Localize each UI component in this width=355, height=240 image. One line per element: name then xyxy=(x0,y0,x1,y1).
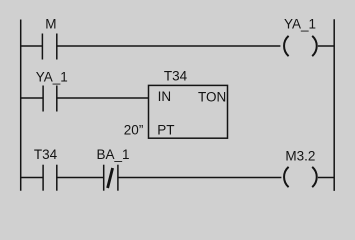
wire rung1: contact M to coil YA_1 xyxy=(57,45,281,47)
svg-text:IN: IN xyxy=(158,89,172,104)
svg-text:PT: PT xyxy=(157,123,174,138)
wire rung1: coil YA_1 to right rail xyxy=(318,45,334,47)
contact YA_1 (normally open) xyxy=(36,70,68,112)
wire rung2: contact YA_1 to timer IN pin xyxy=(57,97,149,99)
wire rung3: left rail to contact T34 xyxy=(21,177,43,179)
svg-text:M3.2: M3.2 xyxy=(285,149,315,164)
contact BA_1 (normally closed) xyxy=(97,147,130,191)
svg-text:BA_1: BA_1 xyxy=(97,147,130,162)
coil YA_1 xyxy=(284,16,317,56)
wire rung1: left rail to contact M xyxy=(21,45,43,47)
contact T34 (normally open) xyxy=(34,147,58,191)
svg-text:M: M xyxy=(45,16,56,31)
wire rung2: left rail to contact YA_1 xyxy=(21,97,43,99)
svg-text:YA_1: YA_1 xyxy=(36,70,68,85)
svg-text:TON: TON xyxy=(198,89,226,104)
svg-text:YA_1: YA_1 xyxy=(284,16,316,31)
svg-text:20”: 20” xyxy=(124,122,144,137)
wire rung3: coil M3.2 to right rail xyxy=(318,177,334,179)
right power rail xyxy=(333,19,335,191)
contact M (normally open) xyxy=(42,16,56,59)
wire rung3: contact T34 to contact BA_1 xyxy=(57,177,104,179)
svg-text:T34: T34 xyxy=(164,69,188,84)
left power rail xyxy=(20,20,22,191)
coil M3.2 xyxy=(284,149,317,188)
svg-text:T34: T34 xyxy=(34,147,58,162)
wire rung3: contact BA_1 to coil M3.2 xyxy=(118,177,282,179)
timer T34 (TON function block) xyxy=(149,69,228,139)
